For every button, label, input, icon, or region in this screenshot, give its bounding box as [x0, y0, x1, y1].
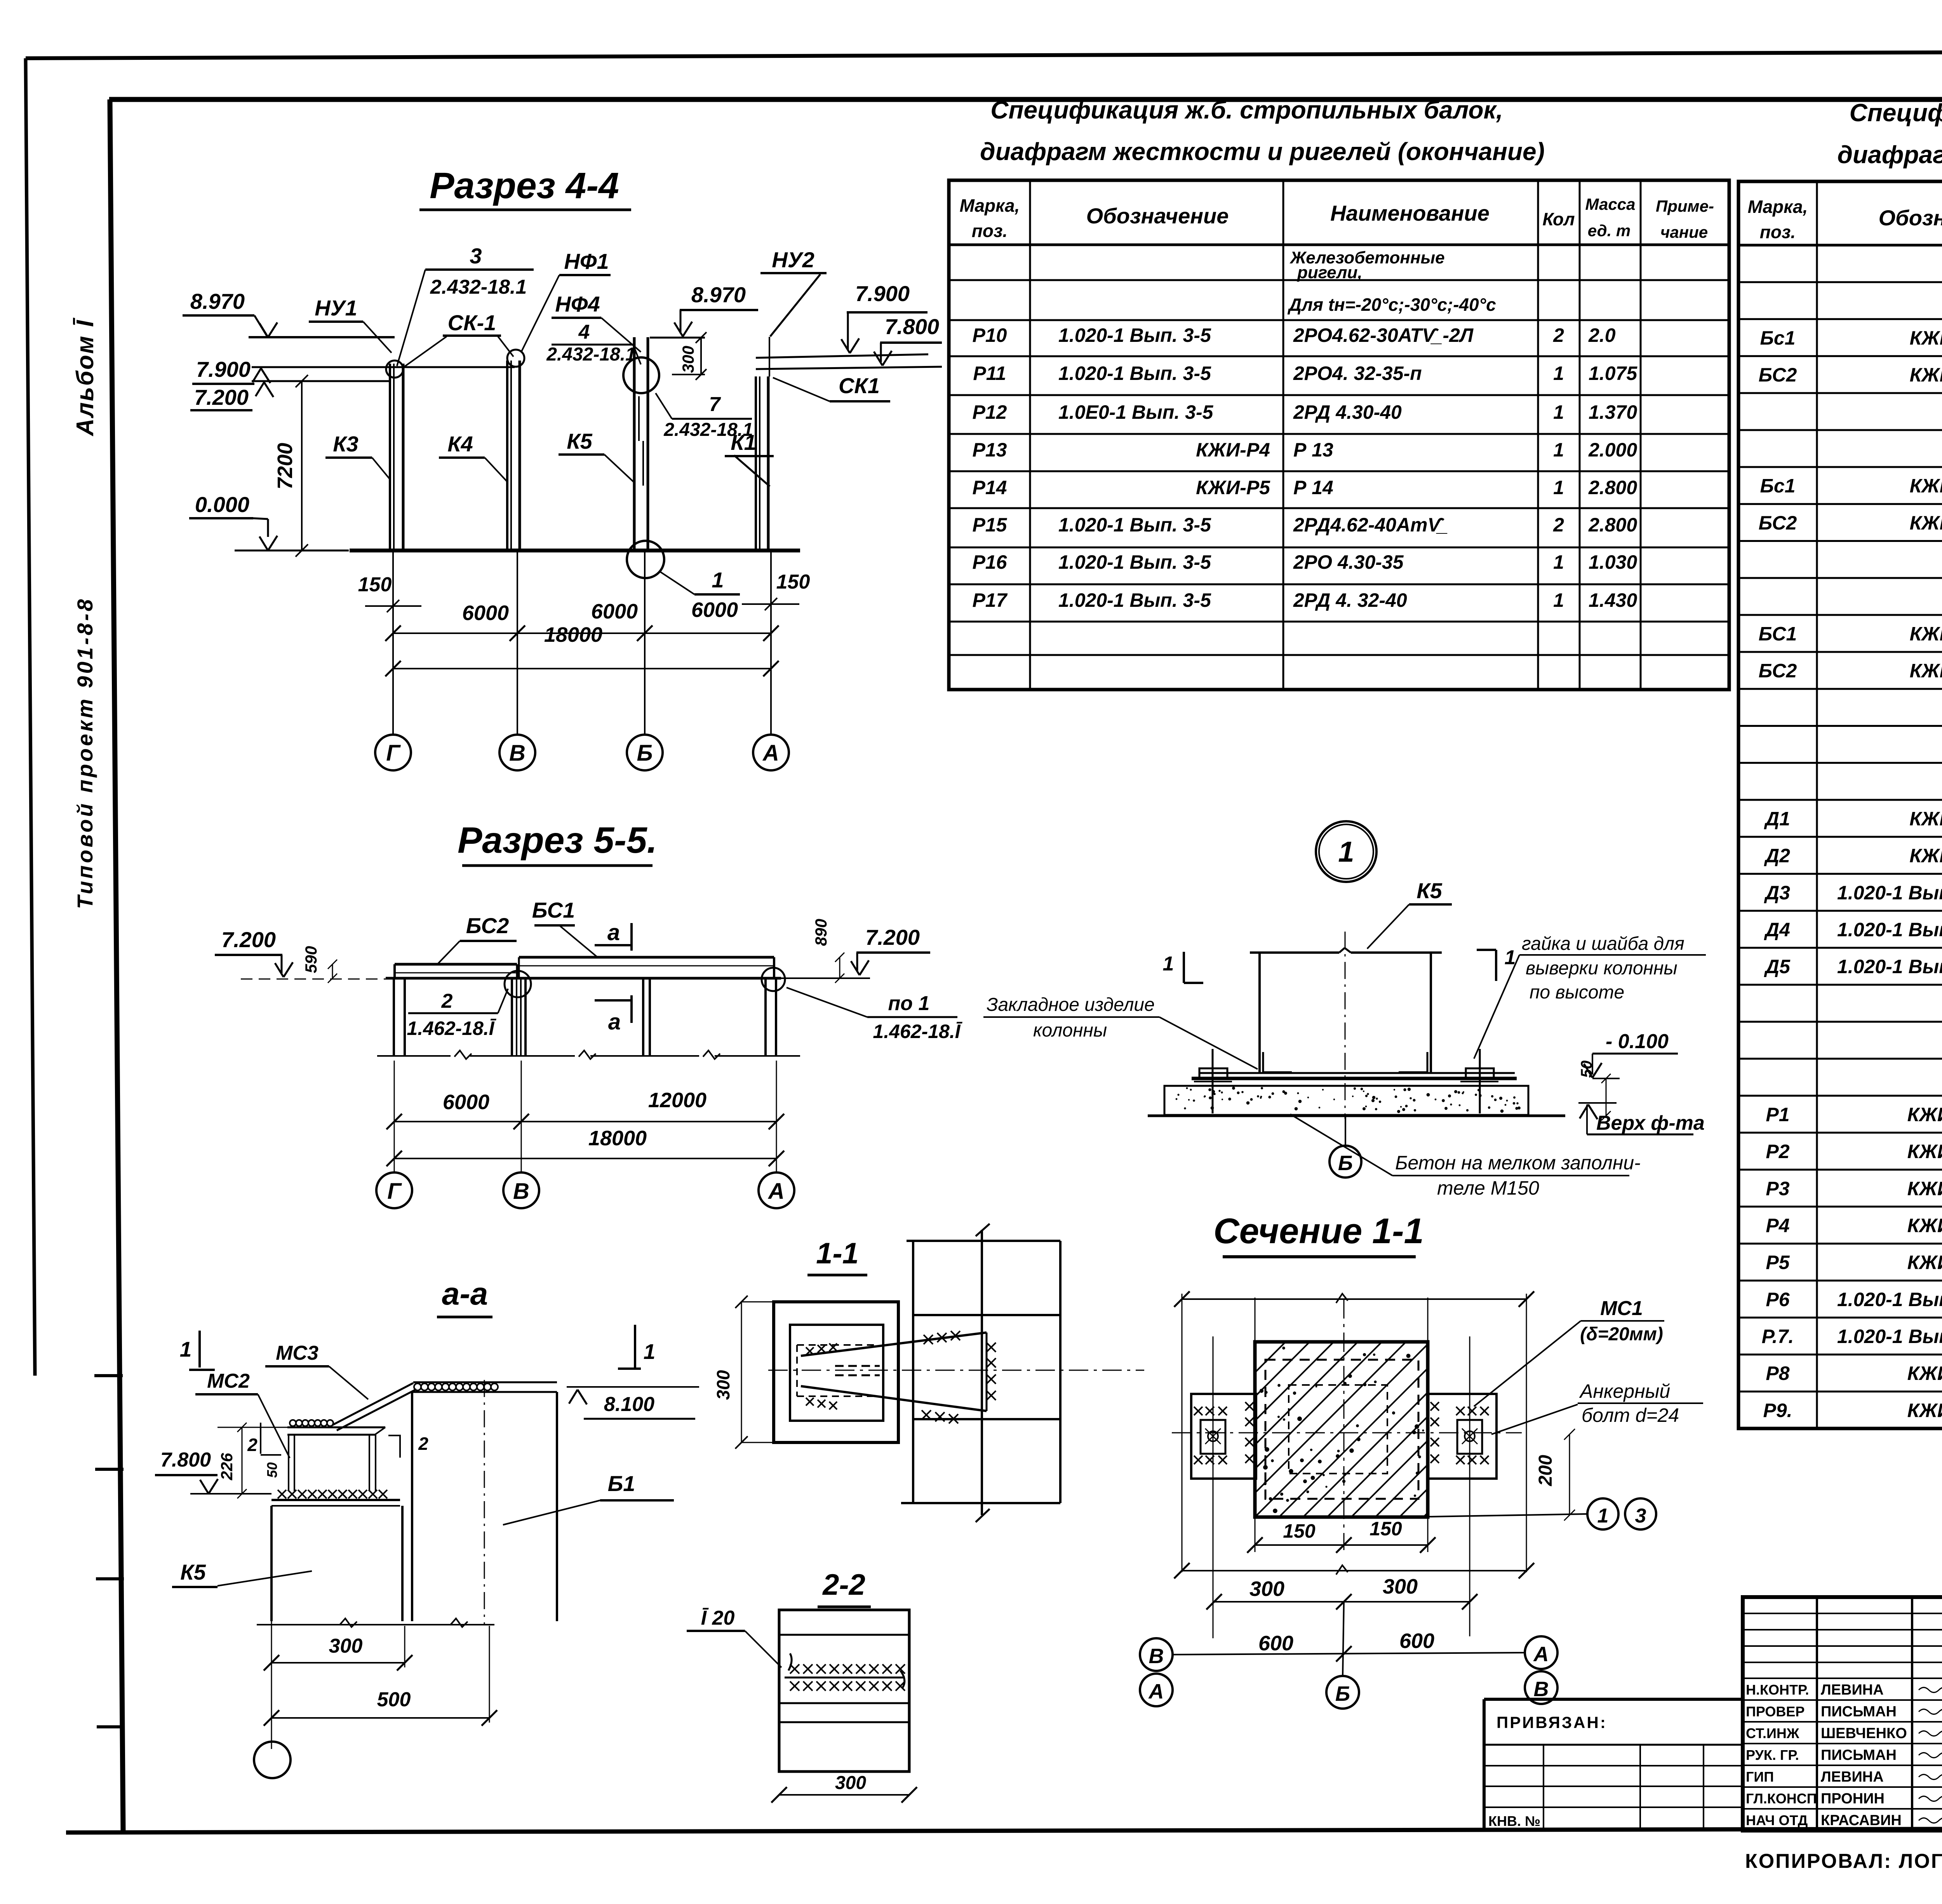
svg-text:300: 300 [679, 346, 697, 373]
svg-text:1.020-1 Вып. 3-5: 1.020-1 Вып. 3-5 [1058, 362, 1211, 384]
axis circle V lower right sec11 [1525, 1671, 1557, 1704]
right table header [1748, 197, 1942, 242]
svg-text:ГЛ.КОНСП: ГЛ.КОНСП [1746, 1791, 1817, 1806]
svg-text:К5: К5 [1416, 878, 1442, 903]
note embedded item [983, 995, 1258, 1069]
concrete column section hatch [1110, 1342, 1623, 1517]
svg-text:2: 2 [441, 990, 453, 1012]
svg-text:1: 1 [1553, 551, 1564, 573]
note nut and washer [1474, 934, 1706, 1059]
seat lines a-a [271, 1500, 400, 1506]
dim line 18000 [385, 623, 779, 676]
svg-text:Н.КОНТР.: Н.КОНТР. [1746, 1682, 1809, 1698]
level 8.100 a-a [567, 1387, 699, 1419]
svg-text:1.020-1 Вып. 3-1: 1.020-1 Вып. 3-1 [1837, 1289, 1942, 1310]
svg-text:Р16: Р16 [973, 551, 1008, 573]
svg-text:1: 1 [1553, 477, 1564, 498]
svg-text:Спецификация ж.б. стропильных: Спецификация ж.б. стропильных балок, [990, 96, 1503, 124]
svg-text:Р14: Р14 [973, 477, 1007, 498]
svg-text:Г: Г [386, 740, 401, 766]
dim 150 left [358, 573, 421, 612]
svg-text:6000: 6000 [462, 601, 509, 625]
beam trapezoid 1-1 [801, 1333, 987, 1411]
anchor bolt right sec11 [1457, 1336, 1482, 1636]
svg-text:а: а [608, 1009, 621, 1035]
svg-text:Р9.: Р9. [1763, 1399, 1792, 1421]
dim 50 node1 [1578, 1061, 1611, 1120]
column K5 a-a [257, 1506, 494, 1749]
svg-text:ПИСЬМАН: ПИСЬМАН [1821, 1747, 1897, 1763]
svg-text:1.020-1 Вып. 3-5: 1.020-1 Вып. 3-5 [1058, 589, 1211, 611]
right connection plate [1427, 1394, 1497, 1479]
label K4 [439, 432, 507, 482]
svg-text:Р.7.: Р.7. [1762, 1326, 1794, 1347]
label 4 / 2.432-18.1 [546, 321, 641, 365]
svg-text:1.462-18.Ī: 1.462-18.Ī [873, 1021, 962, 1042]
svg-text:В: В [509, 740, 526, 766]
svg-text:2РД 4. 32-40: 2РД 4. 32-40 [1293, 589, 1407, 611]
svg-text:8.970: 8.970 [691, 282, 746, 307]
svg-text:Анкерный: Анкерный [1579, 1380, 1670, 1402]
svg-text:болт d=24: болт d=24 [1582, 1404, 1679, 1426]
svg-text:Р10: Р10 [973, 324, 1007, 346]
label MC3 [265, 1342, 368, 1399]
svg-text:(δ=20мм): (δ=20мм) [1580, 1324, 1663, 1345]
label I 20 [687, 1607, 781, 1667]
top flange with welds a-a [413, 1382, 557, 1392]
fold tick marks [94, 1376, 124, 1727]
label K3 [325, 432, 390, 480]
svg-text:КЖИ-Р4: КЖИ-Р4 [1196, 439, 1270, 461]
svg-text:поз.: поз. [1760, 222, 1796, 242]
svg-text:Д4: Д4 [1764, 919, 1790, 941]
dim frame sec11 [1174, 1291, 1534, 1578]
svg-text:ПРОНИН: ПРОНИН [1821, 1791, 1885, 1807]
svg-text:Р 14: Р 14 [1293, 477, 1333, 498]
svg-text:БС1: БС1 [532, 898, 575, 922]
svg-text:1: 1 [1553, 439, 1564, 461]
svg-text:2: 2 [1553, 514, 1564, 536]
svg-text:ШЕВЧЕНКО: ШЕВЧЕНКО [1821, 1725, 1907, 1742]
svg-text:1.020-1 Вып. 3.1: 1.020-1 Вып. 3.1 [1837, 1326, 1942, 1347]
label NF1 [521, 249, 611, 352]
label NF4 [552, 292, 641, 352]
svg-text:1.462-18.Ī: 1.462-18.Ī [407, 1017, 496, 1039]
sheet outer border left [26, 58, 35, 1376]
svg-text:БС2: БС2 [466, 913, 509, 938]
svg-text:Г: Г [387, 1179, 402, 1204]
svg-text:2-2: 2-2 [822, 1568, 865, 1601]
center line 1-1 [768, 1370, 1144, 1371]
svg-text:Р3: Р3 [1766, 1178, 1789, 1199]
svg-text:ригели,: ригели, [1297, 263, 1363, 282]
outer square 1-1 [774, 1302, 898, 1442]
right table title [1837, 99, 1942, 169]
label node 1 pointer [660, 568, 740, 594]
label K5 a-a [172, 1560, 312, 1587]
weld x row a-a [278, 1490, 387, 1498]
section 4-4 title [419, 165, 631, 210]
axis circle В section 4-4 [499, 735, 535, 770]
svg-text:МС1: МС1 [1600, 1297, 1643, 1320]
svg-text:6000: 6000 [691, 598, 738, 622]
svg-text:2РД 4.30-40: 2РД 4.30-40 [1293, 401, 1402, 423]
title block grid [1743, 1597, 1942, 1831]
svg-text:Ī 20: Ī 20 [701, 1607, 735, 1629]
svg-text:50: 50 [264, 1462, 280, 1478]
svg-text:7.800: 7.800 [160, 1449, 211, 1471]
section cut 1-1 title [1213, 1211, 1424, 1257]
svg-text:Р4: Р4 [1766, 1214, 1789, 1236]
svg-text:Для tн=-20°с;-30°с;-40°с: Для tн=-20°с;-30°с;-40°с [1287, 294, 1496, 315]
svg-text:150: 150 [776, 571, 810, 593]
svg-text:КЖИ- Б1: КЖИ- Б1 [1910, 327, 1942, 349]
svg-text:200: 200 [1535, 1455, 1556, 1486]
ground line node1 [1148, 1115, 1565, 1117]
svg-text:1: 1 [180, 1337, 192, 1361]
inner square 1-1 [790, 1325, 883, 1421]
label 7 / 2.432-18.1 [656, 393, 753, 440]
svg-text:КЖИ - Р2: КЖИ - Р2 [1907, 1252, 1942, 1273]
axis circle A lower left sec11 [1140, 1674, 1173, 1706]
svg-text:3: 3 [470, 244, 482, 268]
svg-text:НАЧ ОТД: НАЧ ОТД [1746, 1812, 1808, 1828]
svg-text:КЖИ- Д2: КЖИ- Д2 [1909, 845, 1942, 867]
svg-text:600: 600 [1258, 1632, 1293, 1655]
svg-text:НФ1: НФ1 [564, 249, 609, 273]
svg-text:1-1: 1-1 [816, 1237, 859, 1270]
svg-text:7.200: 7.200 [221, 927, 276, 952]
label 3 / 2.432-18.1 [397, 244, 534, 366]
label anchor bolt d24 [1491, 1380, 1703, 1434]
svg-text:Наименование: Наименование [1330, 201, 1490, 225]
cut mark 1 top left a-a [180, 1331, 215, 1370]
svg-text:Обозначение: Обозначение [1086, 204, 1229, 228]
detail 1-1 title [807, 1237, 867, 1275]
svg-text:КЖИ - Р2: КЖИ - Р2 [1907, 1214, 1942, 1236]
svg-text:6000: 6000 [591, 600, 638, 623]
svg-text:Р 13: Р 13 [1293, 439, 1333, 461]
svg-text:2: 2 [1553, 324, 1564, 346]
svg-text:В: В [513, 1179, 529, 1204]
svg-text:1.370: 1.370 [1589, 401, 1637, 423]
svg-text:В: В [1534, 1678, 1549, 1701]
anchor bolt right node1 [1460, 1049, 1498, 1113]
svg-text:2РО4. 32-35-п: 2РО4. 32-35-п [1293, 362, 1422, 384]
svg-text:КНВ. №: КНВ. № [1488, 1813, 1540, 1829]
svg-text:А: А [762, 740, 779, 766]
svg-text:НУ1: НУ1 [315, 296, 357, 320]
svg-text:2РД4.62-40АтѴ̲: 2РД4.62-40АтѴ̲ [1293, 514, 1448, 536]
svg-text:Д2: Д2 [1764, 845, 1790, 867]
svg-text:СК1: СК1 [839, 373, 880, 398]
binding box [1484, 1699, 1743, 1831]
svg-text:БС2: БС2 [1759, 660, 1797, 682]
svg-text:1: 1 [1597, 1505, 1609, 1527]
svg-text:2.432-18.1: 2.432-18.1 [430, 276, 527, 298]
svg-text:гайка и шайба для: гайка и шайба для [1522, 934, 1684, 954]
svg-text:1.020-1 Вып. 3-5: 1.020-1 Вып. 3-5 [1058, 551, 1211, 573]
svg-text:7: 7 [709, 393, 721, 416]
embedded angles [1263, 1052, 1427, 1072]
level 0.000 left [189, 492, 349, 550]
svg-text:Б: Б [637, 740, 653, 766]
plate 2-2 [779, 1610, 909, 1772]
note concrete fill [1290, 1114, 1641, 1199]
svg-text:7.800: 7.800 [885, 314, 939, 339]
svg-text:7.900: 7.900 [196, 357, 251, 381]
dim 226 a-a [218, 1423, 287, 1498]
level 7.900 left [192, 357, 515, 384]
svg-text:3: 3 [1635, 1505, 1646, 1527]
column B1 a-a [412, 1380, 557, 1627]
svg-text:НУ2: НУ2 [772, 247, 814, 272]
margin text project 901-8-8 [73, 597, 97, 909]
svg-text:2РО 4.30-35: 2РО 4.30-35 [1293, 551, 1404, 573]
svg-text:ед. т: ед. т [1588, 221, 1631, 240]
dim line 6000s [385, 598, 779, 641]
svg-text:ЛЕВИНА: ЛЕВИНА [1821, 1682, 1884, 1698]
dim line 6000 12000 [386, 1061, 784, 1172]
beam BS2 [386, 964, 517, 978]
sheet outer border top [26, 51, 1942, 58]
svg-text:Р15: Р15 [973, 514, 1008, 536]
level 7.800 right [756, 314, 942, 369]
svg-text:А: А [1148, 1680, 1164, 1703]
svg-text:1: 1 [644, 1340, 656, 1364]
label K5 [559, 429, 634, 483]
svg-text:7.200: 7.200 [865, 925, 920, 949]
svg-text:КЖИ- Б3: КЖИ- Б3 [1910, 475, 1942, 497]
axis circle A right sec11 [1525, 1636, 1557, 1669]
svg-text:1: 1 [1553, 401, 1564, 423]
column G 5-5 [377, 978, 472, 1059]
svg-text:Р6: Р6 [1766, 1289, 1790, 1310]
svg-text:РУК. ГР.: РУК. ГР. [1746, 1747, 1799, 1763]
svg-text:Разрез 5-5.: Разрез 5-5. [458, 820, 657, 861]
vertical dim 7200 [273, 375, 308, 557]
svg-text:300: 300 [835, 1773, 866, 1793]
note top of foundation [1578, 1103, 1705, 1134]
svg-text:Обозначение: Обозначение [1879, 206, 1942, 230]
svg-text:КЖИ-Р5: КЖИ-Р5 [1196, 477, 1270, 498]
embedded plate MC1 dashed [1265, 1360, 1418, 1499]
dim 200 sec11 [1535, 1429, 1575, 1521]
svg-text:226: 226 [218, 1453, 236, 1481]
svg-text:Разрез 4-4: Разрез 4-4 [430, 165, 619, 206]
detail 2-2 title [818, 1568, 871, 1607]
svg-text:1: 1 [712, 568, 724, 592]
svg-text:Бетон на мелком заполни-: Бетон на мелком заполни- [1395, 1152, 1641, 1174]
column K5 axis B [623, 337, 664, 735]
label po 1 / 1.462-18 right [787, 988, 963, 1042]
weld x marks sec11 [1194, 1402, 1489, 1464]
label MC1 [1474, 1297, 1664, 1406]
axis circle Г section 5-5 [376, 1172, 412, 1208]
column K5 node1 [1250, 932, 1442, 1119]
cut mark 1 top right a-a [618, 1325, 655, 1369]
svg-text:1.020-1 Вып. 6-2: 1.020-1 Вып. 6-2 [1837, 956, 1942, 977]
svg-text:чание: чание [1660, 223, 1708, 241]
svg-text:1: 1 [1553, 589, 1564, 611]
svg-text:СТ.ИНЖ: СТ.ИНЖ [1746, 1725, 1799, 1741]
anchor bolt left sec11 [1201, 1336, 1225, 1638]
right table grid [1738, 181, 1942, 1428]
dim 600 600 axis line [1173, 1629, 1525, 1662]
svg-text:Марка,: Марка, [960, 195, 1020, 216]
svg-text:Сечение 1-1: Сечение 1-1 [1213, 1211, 1424, 1251]
label NU2 [760, 247, 827, 336]
svg-text:МС2: МС2 [207, 1370, 250, 1392]
cut mark 2 left a-a [247, 1423, 281, 1455]
svg-text:К5: К5 [180, 1560, 206, 1584]
svg-text:2: 2 [418, 1434, 428, 1454]
svg-text:ПРИВЯЗАН:: ПРИВЯЗАН: [1497, 1713, 1607, 1732]
svg-text:КРАСАВИН: КРАСАВИН [1821, 1812, 1902, 1829]
column A 5-5 [715, 978, 800, 1056]
svg-text:МС3: МС3 [276, 1342, 318, 1364]
level 7.200 left [190, 381, 391, 410]
svg-text:Д1: Д1 [1764, 808, 1790, 829]
embedded U dashed 1-1 [797, 1345, 880, 1396]
svg-text:поз.: поз. [972, 221, 1008, 241]
svg-text:1.020-1 Вып. 3-5: 1.020-1 Вып. 3-5 [1058, 514, 1211, 536]
svg-text:7200: 7200 [273, 443, 297, 490]
axis circle B bottom sec11 [1326, 1602, 1359, 1709]
level 7.800 a-a [155, 1449, 271, 1494]
svg-text:Масса: Масса [1585, 195, 1636, 213]
svg-text:колонны: колонны [1033, 1020, 1107, 1041]
svg-text:Р1: Р1 [1766, 1104, 1789, 1125]
label 2 / 1.462-18 [407, 989, 508, 1039]
svg-text:КЖИ- Б2: КЖИ- Б2 [1910, 364, 1942, 386]
svg-text:2.800: 2.800 [1588, 477, 1637, 498]
section mark a lower [595, 995, 632, 1035]
post middle 5-5 [590, 978, 720, 1059]
label B1 a-a [503, 1471, 674, 1525]
column K4 axis V [507, 350, 524, 735]
svg-text:7.900: 7.900 [855, 281, 910, 306]
svg-text:по 1: по 1 [888, 992, 930, 1015]
svg-text:А: А [1533, 1643, 1549, 1666]
left table grid [949, 180, 1729, 690]
axis circle В section 5-5 [503, 1172, 539, 1208]
column V 5-5 [470, 978, 596, 1059]
column K3 axis G [386, 361, 403, 735]
svg-text:Марка,: Марка, [1748, 197, 1808, 217]
svg-text:БС1: БС1 [1759, 623, 1797, 645]
svg-text:КЖИ- Б4: КЖИ- Б4 [1910, 660, 1942, 682]
axis circle Б section 4-4 [627, 735, 663, 770]
svg-text:Р12: Р12 [973, 401, 1007, 423]
centerlines sec11 [1172, 1299, 1522, 1550]
svg-text:Р5: Р5 [1766, 1252, 1790, 1273]
dim 150 right [742, 571, 810, 610]
svg-text:600: 600 [1399, 1629, 1434, 1653]
dim 500 a-a [264, 1626, 497, 1726]
svg-text:300: 300 [713, 1370, 733, 1400]
svg-text:890: 890 [812, 919, 830, 946]
second band with welds a-a [287, 1420, 385, 1435]
svg-text:1.020-1 Вып. 6-2: 1.020-1 Вып. 6-2 [1837, 919, 1942, 941]
svg-text:1.430: 1.430 [1589, 589, 1637, 611]
svg-text:КОПИРОВАЛ: ЛОГИНОВА: КОПИРОВАЛ: ЛОГИНОВА [1745, 1850, 1942, 1873]
base plate [1192, 1073, 1517, 1078]
svg-text:2.432-18.1: 2.432-18.1 [546, 344, 636, 365]
svg-text:12000: 12000 [648, 1089, 706, 1112]
svg-text:6000: 6000 [443, 1090, 489, 1114]
axis circle А section 5-5 [759, 1172, 794, 1208]
label BS1 [532, 898, 597, 956]
margin text Album I [72, 317, 99, 437]
svg-text:Бс1: Бс1 [1760, 327, 1795, 349]
svg-text:300: 300 [1383, 1575, 1418, 1598]
left table rows [973, 248, 1638, 611]
concrete pad M150 [1164, 1086, 1528, 1115]
svg-text:ПРОВЕР: ПРОВЕР [1746, 1704, 1805, 1719]
grid right 1-1 [901, 1224, 1060, 1522]
svg-text:Р8: Р8 [1766, 1362, 1789, 1384]
svg-text:Р17: Р17 [973, 589, 1008, 611]
svg-text:ПИСЬМАН: ПИСЬМАН [1821, 1704, 1897, 1720]
svg-text:КЖИ- Б2: КЖИ- Б2 [1910, 512, 1942, 534]
axis circle А section 4-4 [753, 735, 789, 770]
anchor bolt left node1 [1194, 1049, 1232, 1113]
svg-text:Альбом Ī: Альбом Ī [72, 317, 99, 437]
svg-text:выверки колонны: выверки колонны [1526, 958, 1677, 979]
svg-text:1.030: 1.030 [1589, 551, 1637, 573]
svg-text:590: 590 [302, 946, 320, 973]
svg-text:1.0Е0-1 Вып. 3-5: 1.0Е0-1 Вып. 3-5 [1058, 401, 1214, 423]
svg-text:КЖИ - Р3: КЖИ - Р3 [1907, 1362, 1942, 1384]
svg-text:НФ4: НФ4 [555, 292, 600, 316]
svg-text:0.000: 0.000 [195, 492, 249, 517]
title block signatures [1746, 1682, 1942, 1829]
svg-text:СК-1: СК-1 [448, 310, 496, 335]
section mark a upper [595, 920, 632, 951]
svg-text:2.000: 2.000 [1588, 439, 1637, 461]
svg-text:КЖИ - Р1: КЖИ - Р1 [1907, 1104, 1942, 1125]
svg-text:БС2: БС2 [1759, 364, 1797, 386]
svg-text:ГИП: ГИП [1746, 1769, 1774, 1785]
dim line 18000 5-5 [386, 1127, 784, 1166]
section cut 1 left node1 [1163, 952, 1203, 983]
ground line [350, 549, 800, 552]
label BS2 [438, 913, 517, 963]
svg-text:1: 1 [1553, 362, 1564, 384]
section cut 1 right node1 [1477, 946, 1516, 981]
svg-text:8.970: 8.970 [190, 289, 245, 314]
svg-text:КЖИ- Б5: КЖИ- Б5 [1910, 623, 1942, 645]
svg-text:2: 2 [247, 1435, 258, 1455]
label NU1 [309, 296, 392, 353]
svg-text:150: 150 [1369, 1518, 1402, 1540]
node circle at V [505, 971, 531, 997]
svg-text:150: 150 [358, 573, 392, 596]
svg-text:К1: К1 [731, 430, 756, 455]
axis circle bottom a-a [254, 1742, 291, 1778]
svg-text:Кол: Кол [1542, 209, 1575, 229]
svg-text:4: 4 [578, 321, 590, 343]
svg-text:диафрагм жесткости и ригелей (: диафрагм жесткости и ригелей (окончание) [980, 138, 1545, 165]
level 7.200 right 5-5 [781, 919, 930, 983]
label SK-1 [403, 310, 513, 368]
svg-text:300: 300 [329, 1635, 363, 1657]
svg-text:Б1: Б1 [608, 1471, 635, 1496]
axis circle V sec11 [1140, 1638, 1173, 1671]
svg-text:К5: К5 [567, 429, 592, 453]
beam BS1 [517, 957, 781, 978]
